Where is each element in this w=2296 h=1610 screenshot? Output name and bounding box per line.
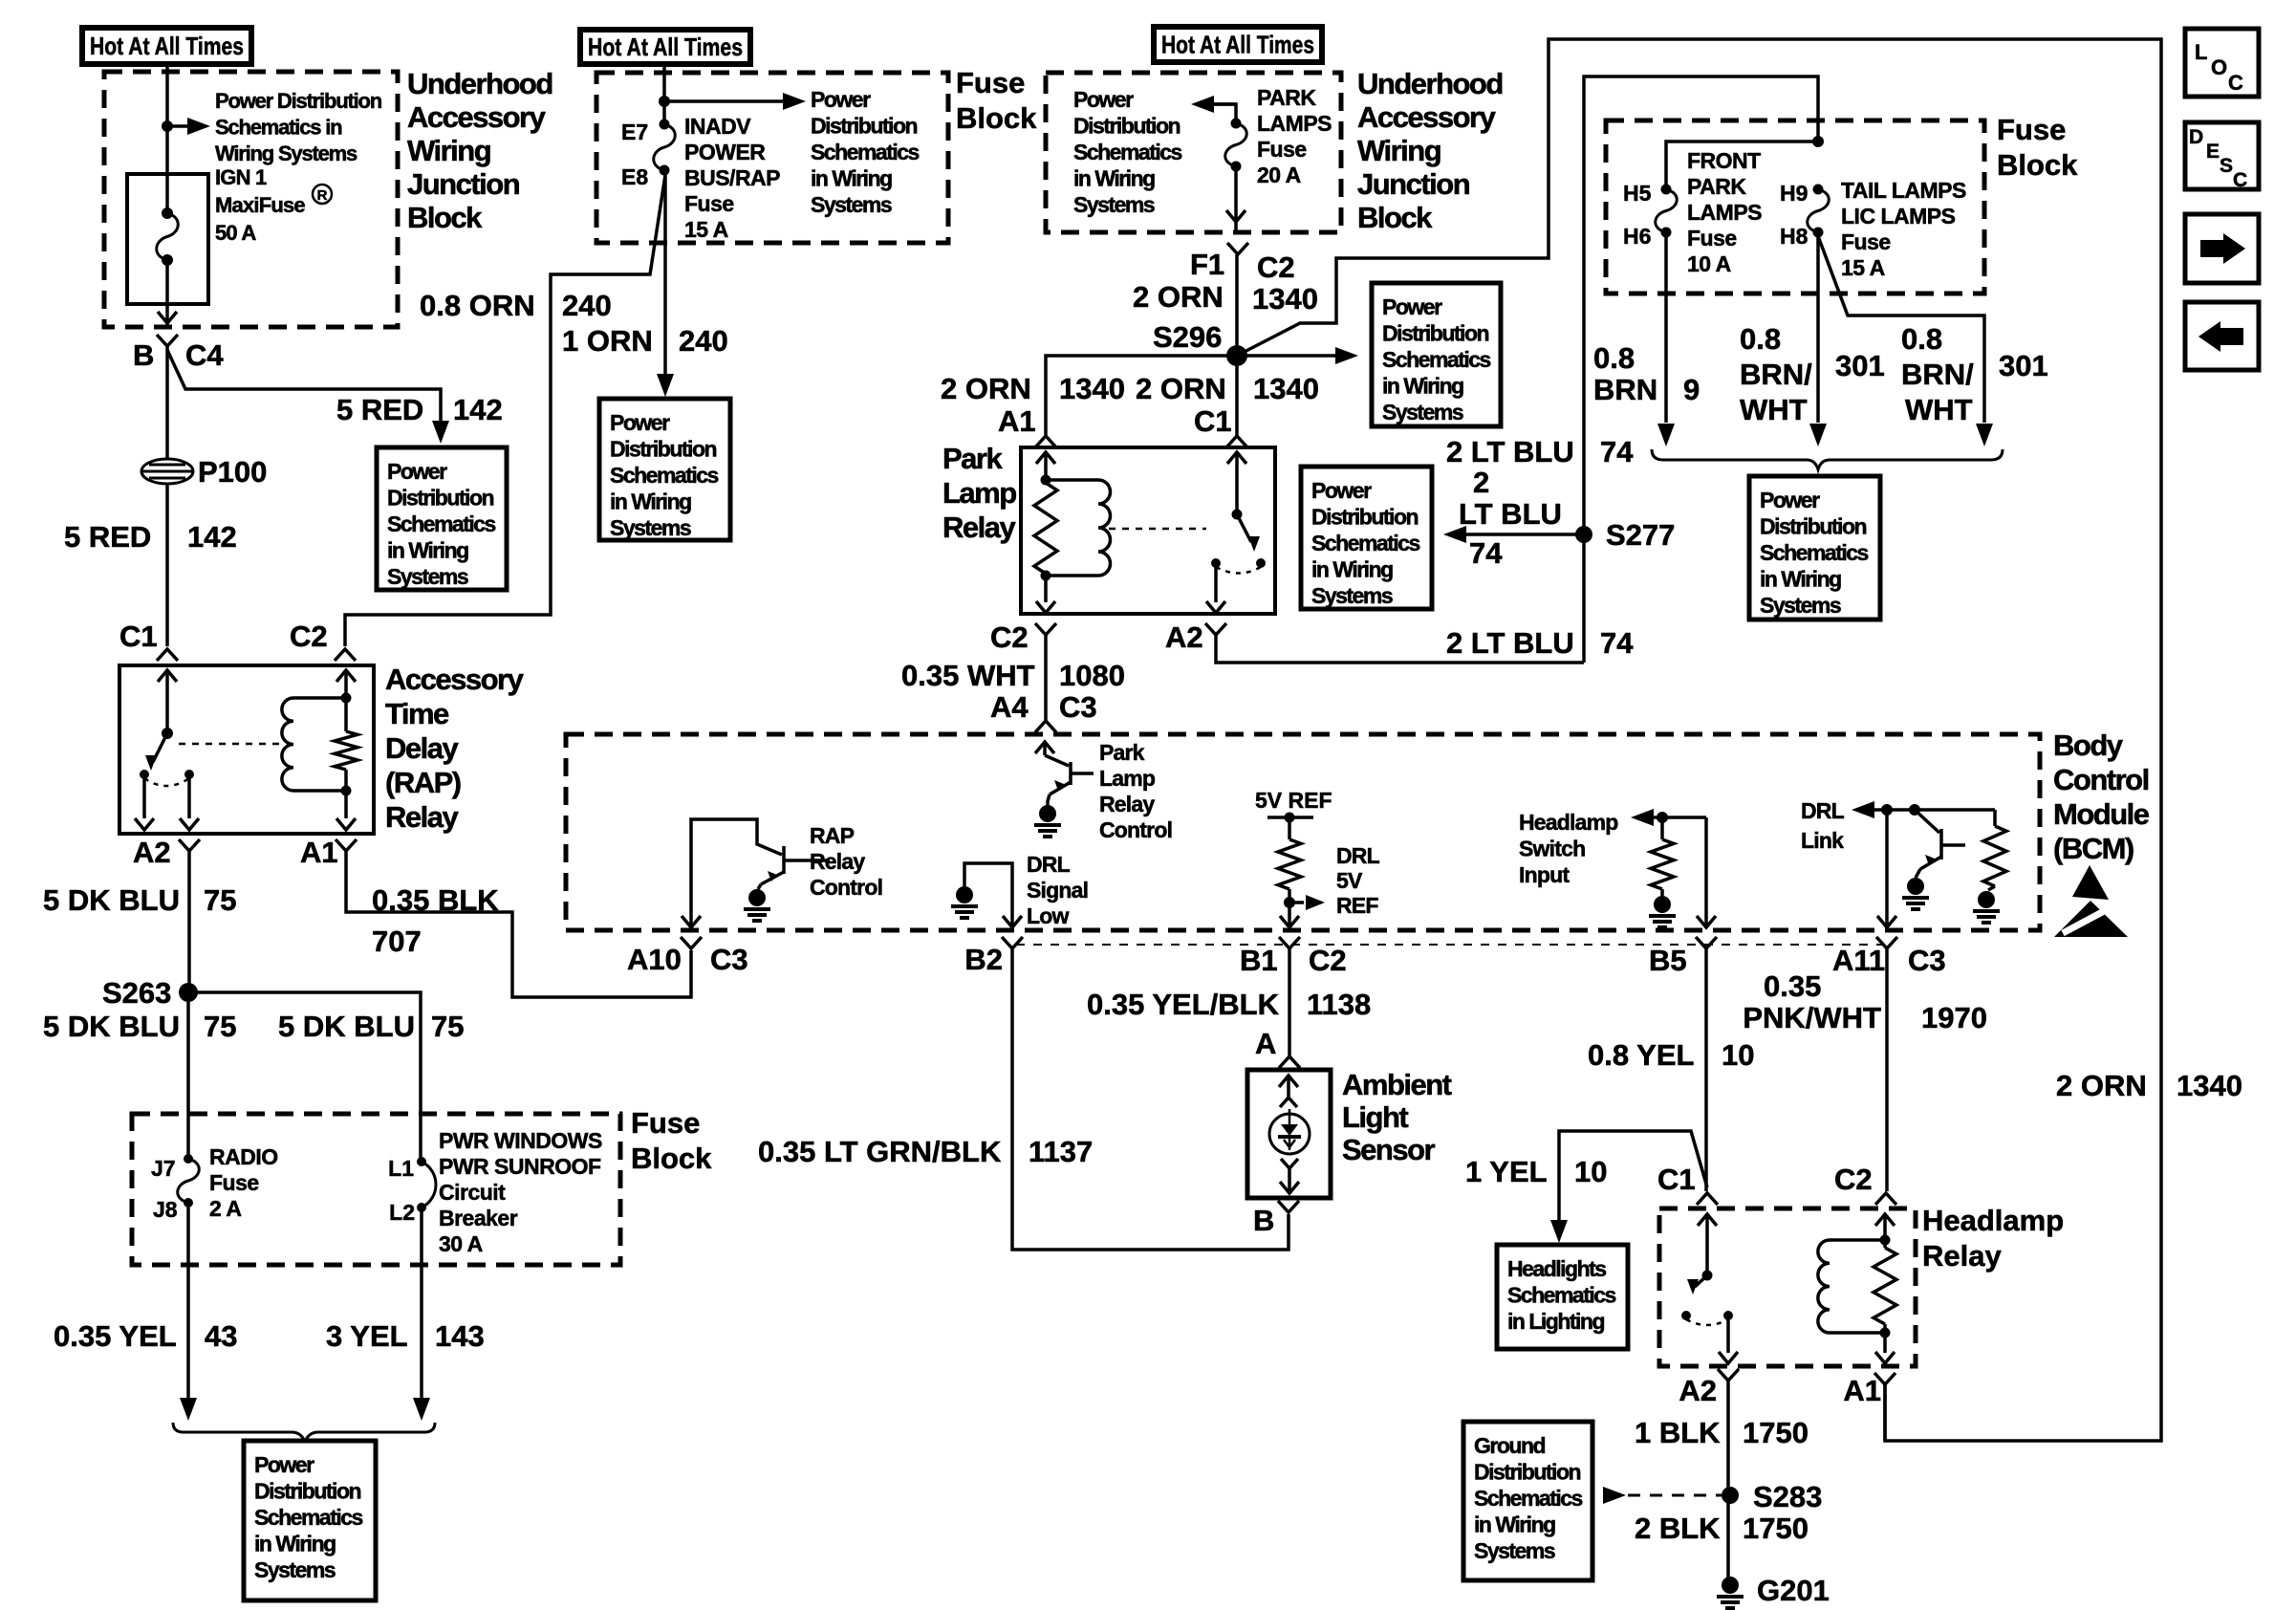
wire S263 branch to L1	[188, 992, 421, 1160]
connector A11 / C3	[1876, 937, 1897, 948]
connector C1 into Headlamp Relay	[1697, 1193, 1718, 1205]
svg-text:Fuse: Fuse	[1257, 137, 1307, 162]
svg-text:Relay: Relay	[1099, 792, 1155, 816]
svg-text:1340: 1340	[1059, 372, 1125, 405]
wire 0.35 YEL/BLK 1138 to sensor A	[1288, 948, 1291, 1055]
wire 5 RED 142 main down to P100	[165, 346, 169, 646]
svg-text:Block: Block	[631, 1142, 712, 1175]
svg-text:15 A: 15 A	[684, 217, 728, 242]
svg-text:Link: Link	[1801, 828, 1844, 853]
svg-text:2 LT BLU: 2 LT BLU	[1446, 626, 1574, 660]
svg-text:0.8: 0.8	[1901, 322, 1942, 356]
svg-text:J7: J7	[151, 1156, 176, 1181]
svg-text:Wiring: Wiring	[1357, 134, 1440, 167]
BCM transistor RAP Relay Control	[691, 819, 830, 927]
goes-to arrow Power Distribution (S296)	[1237, 354, 1336, 358]
headlamp relay coil	[1830, 1238, 1885, 1242]
wire IGN1 fuse output to box edge	[165, 260, 169, 325]
fuse FRONT PARK LAMPS element H5-H6	[1661, 185, 1672, 195]
svg-text:POWER: POWER	[684, 140, 766, 164]
svg-text:707: 707	[372, 925, 422, 958]
wire C2 to BCM A4	[1044, 635, 1048, 720]
reference box Ground Distribution Schematics in Wiring Systems	[1463, 1422, 1592, 1580]
svg-text:E7: E7	[621, 120, 648, 144]
relay switch pivot dot	[162, 728, 173, 739]
svg-text:Fuse: Fuse	[1841, 229, 1891, 254]
svg-text:1340: 1340	[1252, 282, 1318, 315]
svg-text:Block: Block	[956, 101, 1037, 135]
relay parallel resistor (Accessory RAP)	[336, 670, 356, 682]
junction dot on IGN1 feed	[162, 120, 173, 132]
svg-text:IGN 1: IGN 1	[215, 165, 267, 189]
svg-text:1 ORN: 1 ORN	[562, 324, 653, 358]
svg-text:Distribution: Distribution	[1760, 514, 1866, 539]
svg-text:240: 240	[679, 324, 728, 358]
svg-text:C2: C2	[1257, 250, 1295, 284]
svg-text:0.35: 0.35	[1764, 969, 1821, 1003]
ESD sensitivity symbol	[2054, 865, 2128, 937]
svg-text:Input: Input	[1519, 862, 1570, 887]
svg-text:Accessory: Accessory	[1357, 100, 1497, 134]
svg-text:G201: G201	[1757, 1574, 1830, 1607]
park relay switch contacts	[1211, 558, 1221, 568]
wire 0.8 ORN from E8 to Accessory relay C2	[345, 175, 665, 646]
svg-text:PWR WINDOWS: PWR WINDOWS	[439, 1128, 602, 1153]
svg-text:Schematics: Schematics	[1311, 531, 1420, 555]
svg-text:Underhood: Underhood	[1357, 67, 1503, 100]
svg-text:Power: Power	[254, 1452, 314, 1477]
svg-text:Power: Power	[1073, 87, 1134, 112]
DRL link pull resistor	[1983, 810, 2006, 890]
svg-text:Power: Power	[387, 459, 447, 484]
connector A1 below Accessory relay	[336, 839, 357, 851]
svg-text:0.35 WHT: 0.35 WHT	[901, 659, 1035, 692]
relay box Accessory Time Delay (RAP) Relay	[119, 665, 374, 834]
connector C2 into Accessory relay	[335, 649, 356, 661]
wire J8 down (0.35 YEL 43)	[186, 1203, 190, 1400]
wire H8 down 0.8 BRN/WHT 301	[1816, 232, 1820, 423]
svg-text:Switch: Switch	[1519, 837, 1585, 861]
wire S296 down to Park Lamp Relay C1	[1235, 356, 1239, 435]
headlamp relay contacts	[1681, 1311, 1691, 1320]
relay coil (Accessory RAP)	[293, 696, 346, 700]
svg-text:0.8: 0.8	[1593, 341, 1635, 375]
svg-text:5 DK BLU: 5 DK BLU	[43, 883, 180, 917]
svg-text:BRN/: BRN/	[1740, 358, 1812, 391]
svg-text:Lamp: Lamp	[1099, 766, 1156, 791]
svg-text:in Wiring: in Wiring	[254, 1532, 336, 1556]
connector B2	[1002, 937, 1023, 948]
wire 0.35 PNK/WHT 1970 to headlamp relay C2	[1885, 948, 1889, 1191]
wire Park Relay A2 to S277 leg	[1216, 635, 1584, 663]
svg-text:Schematics: Schematics	[1073, 140, 1182, 164]
svg-text:A2: A2	[1679, 1374, 1717, 1407]
svg-text:Systems: Systems	[1311, 583, 1393, 608]
hot-at-all-times label box 1	[82, 28, 251, 64]
svg-text:Block: Block	[1997, 148, 2078, 182]
svg-text:A11: A11	[1832, 944, 1885, 977]
park relay resistor	[1034, 483, 1057, 574]
wire A1 into relay resistor/coil	[1036, 452, 1055, 464]
fuse INADV POWER BUS/RAP element E7-E8	[660, 120, 670, 130]
svg-text:H5: H5	[1623, 181, 1652, 206]
wire into PARK LAMPS fuse	[1212, 104, 1236, 123]
reference box Power Distribution (bottom left)	[244, 1441, 376, 1600]
svg-text:74: 74	[1600, 435, 1634, 468]
relay coil/resistor top dot	[341, 693, 352, 704]
svg-text:C1: C1	[1657, 1163, 1696, 1196]
connector A2 below Park Lamp Relay	[1205, 623, 1226, 635]
svg-text:C: C	[2228, 71, 2243, 95]
svg-text:1138: 1138	[1307, 988, 1371, 1021]
svg-text:5 DK BLU: 5 DK BLU	[43, 1010, 180, 1043]
wire C1 into headlamp relay switch	[1698, 1214, 1717, 1226]
sidebar icon DESC	[2185, 122, 2259, 191]
svg-text:PWR SUNROOF: PWR SUNROOF	[439, 1154, 601, 1179]
svg-text:Distribution: Distribution	[1073, 114, 1180, 139]
svg-text:LAMPS: LAMPS	[1687, 200, 1762, 225]
headlamp relay pivot dot	[1702, 1271, 1713, 1281]
ground (RAP relay control)	[748, 889, 766, 906]
arrow DRL 5V REF at BCM edge	[1280, 916, 1299, 927]
BCM Headlamp Switch Input	[1631, 809, 1706, 896]
svg-text:Relay: Relay	[942, 511, 1016, 544]
connector C2 below Park Lamp Relay	[1035, 623, 1056, 635]
svg-text:PARK: PARK	[1687, 174, 1746, 199]
svg-text:Relay: Relay	[385, 800, 459, 834]
svg-text:Systems: Systems	[1760, 593, 1841, 618]
connector A2 below headlamp relay	[1718, 1369, 1739, 1381]
svg-text:B1: B1	[1240, 944, 1278, 977]
svg-text:A2: A2	[1165, 620, 1203, 654]
wire 1 YEL 10 branch to Headlights Schematics	[1559, 1131, 1707, 1222]
connector A10 / C3	[681, 937, 702, 948]
wire park relay A2 out	[1214, 563, 1218, 602]
svg-text:LT BLU: LT BLU	[1459, 497, 1562, 531]
wire E8 down 1 ORN 240	[663, 170, 667, 375]
wire C1 into park relay switch	[1227, 452, 1246, 464]
dashed box Fuse Block right	[1606, 120, 1984, 294]
sidebar icon LOC	[2185, 29, 2259, 97]
connector B below sensor	[1278, 1201, 1299, 1212]
wire headlamp relay A2 out	[1726, 1316, 1730, 1353]
svg-text:S263: S263	[102, 976, 171, 1010]
svg-text:Fuse: Fuse	[1687, 226, 1737, 250]
svg-text:2 A: 2 A	[209, 1196, 241, 1221]
wire S296 left branch to Park Lamp Relay A1	[1046, 356, 1237, 435]
svg-text:Block: Block	[407, 201, 483, 234]
svg-text:2 ORN: 2 ORN	[2056, 1069, 2147, 1102]
wire A1 to 2 ORN riser	[1883, 1384, 1887, 1441]
svg-text:Distribution: Distribution	[610, 437, 716, 462]
relay box Park Lamp Relay	[1021, 447, 1275, 614]
connector A2 below Accessory relay	[179, 839, 200, 851]
svg-text:1750: 1750	[1743, 1512, 1809, 1545]
splice S263	[179, 983, 198, 1002]
svg-text:C3: C3	[710, 943, 748, 976]
svg-text:Power: Power	[610, 410, 670, 435]
svg-text:Distribution: Distribution	[811, 114, 917, 139]
brace joining 43/143 wires	[173, 1423, 435, 1442]
svg-text:2 ORN: 2 ORN	[1136, 372, 1226, 405]
reference box Power Distribution (5 RED)	[377, 447, 507, 590]
svg-text:Park: Park	[942, 442, 1003, 475]
svg-text:9: 9	[1683, 373, 1700, 406]
svg-text:Wiring Systems: Wiring Systems	[215, 141, 357, 165]
svg-text:1 YEL: 1 YEL	[1465, 1155, 1548, 1188]
park relay coil	[1046, 478, 1098, 482]
svg-text:Headlamp: Headlamp	[1519, 810, 1618, 835]
wire H6 down 0.8 BRN 9	[1664, 232, 1668, 423]
wire C1 into relay switch common	[158, 670, 177, 682]
svg-text:0.8 ORN: 0.8 ORN	[420, 289, 535, 322]
dashed box Fuse Block (lower left)	[132, 1114, 620, 1265]
fuse PARK LAMPS 20 A element	[1231, 119, 1242, 129]
svg-text:5 DK BLU: 5 DK BLU	[278, 1010, 415, 1043]
wire C2 into headlamp relay coil	[1875, 1214, 1895, 1226]
svg-text:L1: L1	[388, 1156, 414, 1181]
svg-text:Circuit: Circuit	[439, 1180, 506, 1205]
svg-text:B: B	[1253, 1204, 1274, 1237]
connector B5	[1696, 937, 1717, 948]
svg-text:10: 10	[1722, 1038, 1754, 1072]
svg-text:Schematics: Schematics	[1507, 1283, 1616, 1308]
svg-text:C: C	[2233, 169, 2247, 191]
svg-text:A: A	[1255, 1027, 1276, 1060]
headlamp relay dashed arc	[1686, 1319, 1728, 1325]
svg-text:C4: C4	[185, 338, 224, 372]
svg-text:in Wiring: in Wiring	[1760, 567, 1841, 592]
svg-text:Schematics: Schematics	[1760, 540, 1869, 565]
headlamp relay switch arm	[1695, 1275, 1707, 1287]
reference box Power Distribution (1 ORN)	[599, 399, 730, 540]
wire 0.35 LT GRN/BLK 1137 from B2 to sensor B	[1012, 948, 1289, 1250]
svg-text:Wiring: Wiring	[407, 134, 490, 167]
svg-text:in Lighting: in Lighting	[1507, 1309, 1604, 1334]
BCM DRL 5V REF divider	[1255, 788, 1332, 925]
svg-text:301: 301	[1999, 349, 2048, 382]
svg-text:Body: Body	[2053, 729, 2124, 762]
svg-text:3 YEL: 3 YEL	[326, 1319, 408, 1353]
connector A1 into Park Lamp Relay	[1035, 436, 1056, 447]
connector A1 below headlamp relay	[1874, 1373, 1895, 1384]
wire 5 RED 142 branch to Power Distribution reference	[167, 350, 441, 423]
svg-text:5V: 5V	[1336, 868, 1363, 893]
svg-text:15 A: 15 A	[1841, 255, 1885, 280]
svg-text:74: 74	[1469, 536, 1503, 570]
svg-text:MaxiFuse: MaxiFuse	[215, 193, 305, 217]
DRL link transistor	[1915, 810, 1965, 878]
connector C1 into Accessory relay	[157, 649, 178, 661]
svg-text:R: R	[317, 187, 328, 204]
svg-text:0.35 LT GRN/BLK: 0.35 LT GRN/BLK	[758, 1135, 1002, 1168]
svg-text:Schematics: Schematics	[1382, 347, 1491, 372]
svg-text:WHT: WHT	[1905, 393, 1973, 426]
svg-text:50 A: 50 A	[215, 221, 256, 245]
wire S296 up to top-right feed (2 ORN 1340)	[1237, 39, 2161, 1441]
svg-text:240: 240	[562, 289, 612, 322]
hot-at-all-times label box 3	[1154, 27, 1322, 62]
ground (DRL link transistor)	[1907, 878, 1924, 895]
svg-text:C2: C2	[990, 620, 1029, 654]
svg-text:Schematics: Schematics	[387, 511, 496, 536]
park relay bottom dot	[1041, 571, 1051, 581]
svg-text:Fuse: Fuse	[631, 1106, 700, 1140]
wire 0.8 YEL 10 from B5 to headlamp relay C1	[1704, 948, 1708, 1191]
svg-text:C1: C1	[119, 620, 158, 653]
wire NC contact stub	[142, 774, 146, 818]
svg-text:B: B	[133, 338, 154, 372]
svg-text:RAP: RAP	[810, 823, 855, 848]
svg-text:Ground: Ground	[1474, 1433, 1545, 1458]
svg-text:20 A: 20 A	[1257, 163, 1301, 187]
svg-text:C1: C1	[1194, 404, 1232, 438]
svg-text:S296: S296	[1153, 320, 1222, 354]
connector C1 into Park Lamp Relay	[1226, 436, 1247, 447]
reference box Power Distribution (S277)	[1301, 467, 1432, 609]
park relay switch pivot dot	[1232, 510, 1243, 520]
svg-text:A10: A10	[627, 943, 682, 976]
arrow DRL signal low at BCM edge	[1003, 916, 1022, 927]
svg-text:0.35 YEL: 0.35 YEL	[54, 1319, 177, 1353]
park relay top dot	[1041, 475, 1051, 486]
svg-text:Signal: Signal	[1027, 878, 1088, 903]
photodiode symbol	[1278, 1109, 1301, 1150]
svg-text:Lamp: Lamp	[942, 476, 1016, 510]
svg-text:C2: C2	[1309, 944, 1347, 977]
dashed box Body Control Module (BCM)	[566, 734, 2040, 930]
BCM DRL Link output	[1852, 801, 1995, 818]
svg-text:B5: B5	[1649, 944, 1687, 977]
ground G201	[1722, 1577, 1739, 1594]
sensor internal wire top	[1279, 1076, 1298, 1087]
dashed box Fuse Block 2	[596, 73, 948, 243]
svg-text:74: 74	[1600, 626, 1634, 660]
svg-text:1750: 1750	[1743, 1416, 1809, 1449]
svg-text:in Wiring: in Wiring	[1311, 557, 1393, 582]
svg-text:30 A: 30 A	[439, 1231, 483, 1256]
svg-text:C2: C2	[1834, 1163, 1873, 1196]
svg-text:Relay: Relay	[810, 849, 865, 874]
wire L2 down (3 YEL 143)	[420, 1207, 423, 1400]
ground (headlamp switch input)	[1654, 896, 1671, 913]
svg-text:1137: 1137	[1029, 1135, 1093, 1168]
svg-text:in Wiring: in Wiring	[1382, 374, 1463, 399]
svg-text:Light: Light	[1342, 1100, 1408, 1134]
svg-text:5 RED: 5 RED	[64, 520, 151, 554]
svg-text:1080: 1080	[1059, 659, 1125, 692]
svg-text:A2: A2	[133, 836, 171, 869]
svg-text:RADIO: RADIO	[209, 1144, 278, 1169]
svg-text:Systems: Systems	[1474, 1538, 1555, 1563]
sidebar icon arrow right	[2185, 214, 2259, 283]
svg-text:Fuse: Fuse	[956, 66, 1025, 99]
connector B1 / C2	[1279, 937, 1300, 948]
wire park relay coil out to C2	[1044, 576, 1048, 602]
svg-text:LIC LAMPS: LIC LAMPS	[1841, 204, 1956, 228]
svg-text:PARK: PARK	[1257, 85, 1316, 110]
svg-text:2 ORN: 2 ORN	[1133, 280, 1224, 314]
goes-to arrow 2 LT BLU 74 to Power Distribution	[1464, 533, 1584, 536]
fuse TAIL LAMPS LIC LAMPS element H9-H8	[1813, 185, 1824, 195]
svg-text:PNK/WHT: PNK/WHT	[1743, 1001, 1881, 1034]
junction dot above E7	[659, 96, 670, 107]
relay switch alternate-position dashed arc	[144, 778, 189, 786]
svg-text:L2: L2	[389, 1200, 415, 1225]
wire hot feed into IGN1 fuse	[165, 61, 169, 213]
svg-text:Underhood: Underhood	[407, 67, 552, 100]
fuse RADIO 2A element J7-J8	[184, 1154, 193, 1164]
svg-text:Control: Control	[1099, 817, 1172, 842]
dashed box Underhood Accessory Wiring Junction Block 3	[1046, 73, 1341, 232]
wire S263 down to J7	[186, 1002, 190, 1159]
svg-text:Module: Module	[2053, 797, 2150, 831]
fine dashed connector line inside BCM bottom	[1016, 944, 1883, 946]
sidebar icon arrow left	[2185, 302, 2259, 370]
wire A2 to S263	[187, 851, 191, 992]
svg-text:D: D	[2189, 126, 2203, 148]
relay coil/resistor bottom dot	[341, 786, 352, 796]
svg-text:B2: B2	[964, 943, 1003, 976]
svg-text:H8: H8	[1780, 224, 1809, 249]
brace joining fuse outputs	[1652, 449, 2003, 469]
svg-text:A1: A1	[998, 404, 1036, 438]
svg-text:2 ORN: 2 ORN	[941, 372, 1031, 405]
svg-text:DRL: DRL	[1801, 798, 1845, 823]
reference box Power Distribution (tail lamps)	[1749, 476, 1880, 620]
svg-text:Schematics: Schematics	[254, 1505, 363, 1530]
svg-text:Distribution: Distribution	[1311, 505, 1418, 530]
svg-text:75: 75	[204, 883, 236, 917]
wire S277 riser to fuse block	[1584, 76, 1818, 663]
svg-text:BRN/: BRN/	[1901, 358, 1974, 391]
svg-text:C3: C3	[1908, 944, 1946, 977]
svg-text:43: 43	[205, 1319, 237, 1353]
svg-text:75: 75	[431, 1010, 464, 1043]
svg-text:Accessory: Accessory	[407, 100, 547, 134]
relay switch contact dots	[140, 770, 149, 779]
wire 0.35 BLK 707 from A1 to BCM A10	[346, 851, 691, 997]
svg-text:Distribution: Distribution	[387, 486, 493, 511]
svg-text:Park: Park	[1099, 740, 1145, 765]
svg-text:Junction: Junction	[407, 167, 520, 201]
svg-text:Delay: Delay	[385, 731, 459, 765]
svg-text:Low: Low	[1027, 903, 1069, 928]
reference box Headlights Schematics in Lighting	[1497, 1245, 1628, 1349]
svg-text:Power: Power	[1760, 488, 1820, 512]
svg-text:Systems: Systems	[387, 564, 468, 589]
park relay dashed actuator link	[1109, 528, 1206, 531]
svg-text:INADV: INADV	[684, 114, 751, 139]
svg-text:2 LT BLU: 2 LT BLU	[1446, 435, 1574, 468]
svg-text:Block: Block	[1357, 201, 1433, 234]
splice S283	[1722, 1487, 1739, 1504]
svg-text:O: O	[2211, 55, 2227, 79]
wire hot feed into E7	[662, 61, 666, 124]
svg-text:Distribution: Distribution	[254, 1479, 360, 1504]
svg-text:Relay: Relay	[1922, 1239, 2002, 1273]
svg-text:Systems: Systems	[610, 515, 691, 540]
svg-text:1 BLK: 1 BLK	[1635, 1416, 1721, 1449]
svg-text:10: 10	[1574, 1155, 1607, 1188]
svg-text:Power: Power	[811, 87, 871, 112]
svg-text:in Wiring: in Wiring	[811, 166, 892, 191]
goes-to arrow Power Distribution (park lamps fuse)	[1212, 102, 1236, 106]
svg-text:in Wiring: in Wiring	[1474, 1512, 1555, 1537]
wire F1 to S296	[1235, 254, 1239, 356]
svg-text:142: 142	[453, 393, 503, 426]
wire branch to H5	[1666, 141, 1818, 189]
